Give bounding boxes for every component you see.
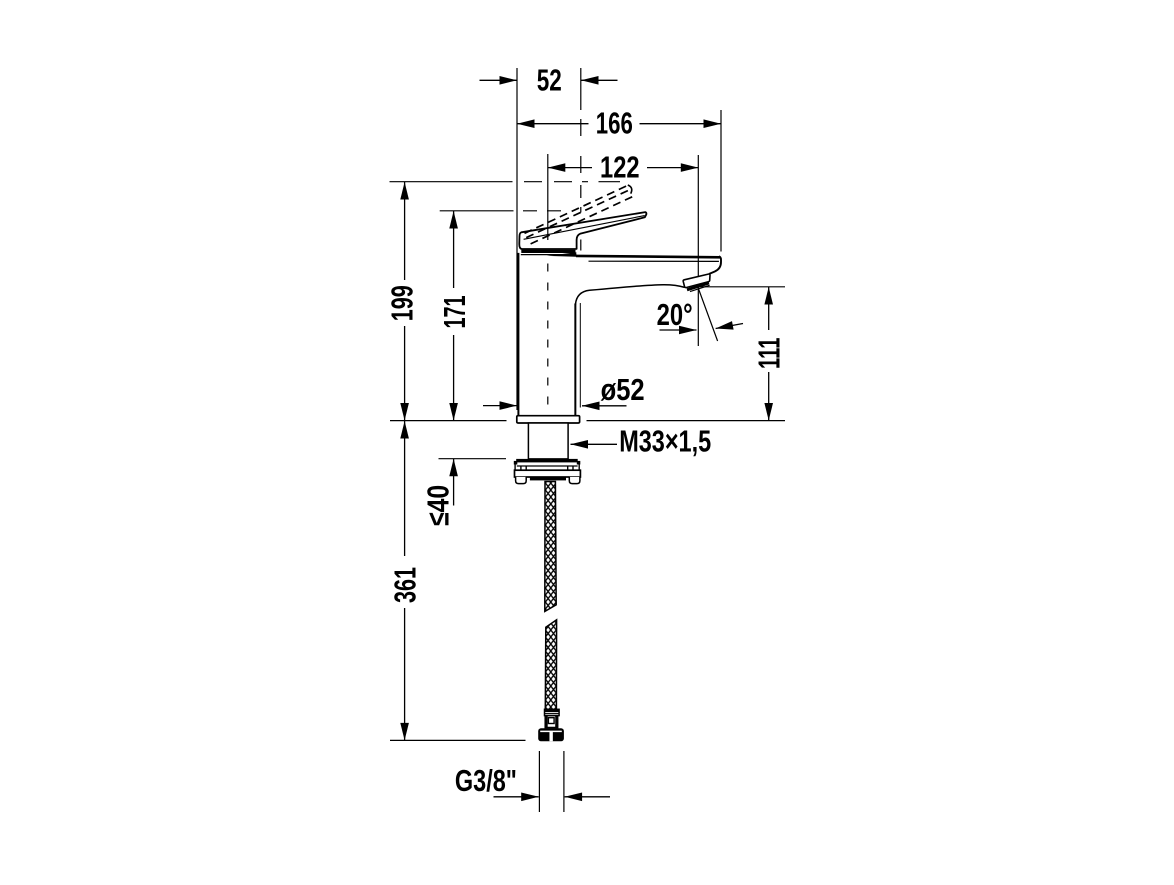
raised lever dashed middle edge bbox=[526, 190, 630, 238]
mounting surface line left of body bbox=[390, 420, 507, 422]
lever underside edge line bbox=[524, 216, 645, 240]
svg-text:52: 52 bbox=[537, 64, 562, 98]
dimension line 52 right tail bbox=[581, 79, 618, 81]
lever handle (rest position) bbox=[519, 212, 646, 249]
mounting surface line right of body bbox=[587, 420, 786, 422]
svg-text:G3/8": G3/8" bbox=[455, 764, 517, 798]
washer lower line bbox=[517, 465, 578, 467]
arrowhead 20-degree right bbox=[716, 321, 734, 330]
washer slot tick 2 bbox=[525, 466, 527, 472]
arrowhead 122 right bbox=[681, 163, 699, 172]
washer left nub bbox=[514, 461, 518, 465]
dimension line 171 upper part bbox=[453, 211, 455, 288]
washer slot tick 1 bbox=[520, 466, 522, 472]
extension line right of 52 dim (solid part) bbox=[580, 68, 582, 110]
arrowhead G3/8 left bbox=[521, 793, 539, 802]
svg-text:20°: 20° bbox=[657, 298, 693, 332]
dimension line 199 lower part bbox=[404, 326, 406, 421]
dimension line 111 lower part bbox=[768, 372, 770, 421]
extension line left (52/166 datum) bbox=[516, 68, 518, 410]
arrowhead 111 top bbox=[764, 287, 773, 305]
leader line diameter52 left bbox=[483, 405, 517, 407]
flexible hose upper segment bbox=[545, 482, 556, 612]
nut right foot bbox=[569, 477, 580, 484]
arrowhead 111 bottom bbox=[764, 403, 773, 421]
svg-text:361: 361 bbox=[388, 567, 422, 603]
svg-text:M33×1,5: M33×1,5 bbox=[619, 425, 711, 459]
arrowhead 361 top bbox=[400, 421, 409, 439]
leader line diameter52 right bbox=[582, 405, 627, 407]
nut lower dark band bbox=[530, 477, 566, 480]
raised lever dashed tip bbox=[628, 185, 632, 194]
faucet centerline (dashed) bbox=[547, 264, 549, 444]
fitting body right heavy edge bbox=[555, 716, 557, 728]
extension line top of raised lever (199 level) bbox=[390, 181, 513, 183]
extension line right of 52 dim (dashed part) bbox=[580, 119, 582, 251]
extension line right of G3/8 dim bbox=[563, 751, 565, 812]
extension line max counter thickness (40 level) bbox=[439, 458, 507, 460]
body right edge bbox=[574, 304, 576, 416]
20-degree slanted spray line bbox=[698, 289, 717, 342]
hose nut top groove bbox=[540, 730, 562, 732]
extension line spout outlet (111 level) bbox=[701, 286, 786, 288]
dimension line 166 left part bbox=[517, 123, 589, 125]
arrowhead G3/8 right bbox=[565, 793, 583, 802]
dimension line 166 right part bbox=[640, 123, 722, 125]
body top edge under lever bbox=[521, 254, 577, 256]
arrowhead 122 left bbox=[548, 163, 566, 172]
spout tip right edge bbox=[709, 256, 721, 274]
arrowhead 361 bottom bbox=[400, 723, 409, 741]
dimension line G3/8 left tail bbox=[494, 796, 539, 798]
hose end nut bbox=[538, 728, 564, 741]
arrowhead 52 right bbox=[581, 76, 599, 85]
dimension line 199 upper part bbox=[404, 182, 406, 280]
dimension line 361 lower part bbox=[404, 608, 406, 740]
aerator face thick band bbox=[687, 283, 709, 290]
dimension line 122 left part bbox=[548, 167, 592, 169]
spout underside curve bbox=[575, 285, 684, 305]
fitting body left heavy edge bbox=[546, 716, 548, 728]
arrowhead 20-degree left bbox=[679, 326, 697, 335]
seal washer dark band bbox=[516, 459, 578, 463]
extension line hose end (361 level) bbox=[390, 739, 526, 741]
arrowhead 199 bottom bbox=[400, 403, 409, 421]
hose fitting collar dark top bbox=[544, 709, 559, 712]
svg-text:171: 171 bbox=[438, 295, 472, 328]
flexible hose lower segment bbox=[545, 620, 556, 710]
svg-text:166: 166 bbox=[596, 106, 633, 140]
hose fitting collar bbox=[545, 709, 560, 715]
svg-text:199: 199 bbox=[386, 285, 420, 321]
nut left foot bbox=[516, 477, 527, 484]
dashed continuation of 171 level line bbox=[523, 210, 561, 212]
dimension line 122 right part bbox=[647, 167, 698, 169]
dimension line 111 upper part bbox=[768, 287, 770, 330]
washer right nub bbox=[577, 461, 581, 465]
aerator face thin band bbox=[690, 285, 710, 291]
arrowhead 199 top bbox=[400, 182, 409, 200]
svg-text:122: 122 bbox=[600, 151, 640, 185]
body left edge bbox=[517, 253, 519, 416]
extension line right of 122 / 20-degree vertical reference bbox=[697, 155, 699, 346]
washer right outer edge bbox=[578, 464, 580, 470]
svg-text:ø52: ø52 bbox=[601, 373, 645, 407]
svg-text:≤40: ≤40 bbox=[422, 485, 456, 526]
20-degree right arrow tail bbox=[716, 324, 743, 329]
dashed continuation of 199 level line bbox=[524, 181, 620, 183]
arrowhead 166 right bbox=[704, 119, 722, 128]
base flange bbox=[517, 416, 580, 423]
arrowhead diameter52 left bbox=[500, 401, 518, 410]
dimension line 52 left tail bbox=[480, 79, 518, 81]
aerator outlet housing bbox=[683, 274, 710, 288]
arrowhead max 40 bbox=[449, 459, 458, 477]
raised lever dashed top edge bbox=[525, 186, 628, 234]
washer left outer edge bbox=[514, 464, 516, 470]
svg-text:111: 111 bbox=[753, 338, 787, 370]
fitting collar mid line bbox=[545, 712, 560, 714]
arrowhead M33 bbox=[571, 440, 589, 449]
spout top inner edge bbox=[589, 260, 719, 262]
arrowhead 52 left bbox=[500, 76, 518, 85]
spout top thick edge bbox=[576, 256, 720, 257]
raised lever dashed bottom edge bbox=[531, 197, 633, 244]
threaded shank bbox=[528, 423, 568, 459]
fitting window bbox=[548, 718, 554, 724]
washer slot tick 3 bbox=[567, 466, 569, 472]
dimension line max 40 bbox=[453, 459, 455, 506]
leader line M33 bbox=[571, 443, 618, 445]
cartridge ring dark band bbox=[521, 250, 575, 253]
extension line left of G3/8 dim bbox=[538, 751, 540, 812]
washer slot tick 4 bbox=[572, 466, 574, 472]
extension line for diameter 52 bbox=[579, 303, 581, 408]
hose fitting body bbox=[545, 716, 557, 728]
mounting nut bbox=[515, 470, 581, 477]
hose nut center groove bbox=[549, 731, 552, 741]
arrowhead diameter52 right bbox=[582, 402, 600, 411]
dimension line 171 lower part bbox=[453, 335, 455, 421]
arrowhead 171 bottom bbox=[449, 403, 458, 421]
arrowhead 171 top bbox=[449, 211, 458, 229]
spout top left wedge bbox=[547, 252, 577, 256]
dimension line G3/8 right tail bbox=[565, 796, 610, 798]
extension line right of 166 dim (spout tip) bbox=[720, 110, 722, 252]
extension line left of 122 dim bbox=[547, 154, 549, 240]
dimension line 361 upper part bbox=[404, 421, 406, 556]
extension line lever top (171 level) bbox=[440, 210, 514, 212]
arrowhead 166 left bbox=[517, 119, 535, 128]
20-degree left arrow tail bbox=[660, 329, 697, 331]
